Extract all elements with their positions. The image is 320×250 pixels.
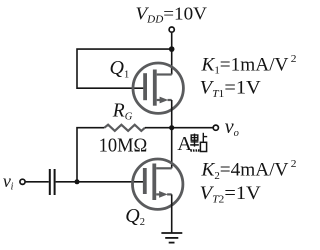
wire VDD rail down to Q1 drain — [171, 33, 173, 75]
wire Q1 gate feedback loop — [77, 49, 172, 88]
capacitor left plate — [49, 169, 51, 195]
wire vi to capacitor — [26, 181, 49, 183]
svg-text:VT1=1V: VT1=1V — [200, 79, 262, 100]
svg-text:10MΩ: 10MΩ — [99, 134, 148, 156]
svg-text:A: A — [177, 133, 192, 155]
glyph dian (Chinese "point") — [190, 133, 207, 152]
terminal vi — [20, 179, 25, 184]
terminal VDD — [169, 27, 174, 32]
svg-text:VDD=10V: VDD=10V — [136, 4, 208, 26]
ground — [161, 233, 182, 243]
capacitor right plate — [54, 169, 56, 195]
wire node A to vo terminal — [172, 127, 213, 129]
resistor RG zigzag — [104, 125, 145, 131]
mosfet Q1 — [133, 63, 183, 113]
mosfet Q2 — [133, 159, 183, 209]
wire Q2 source to ground — [171, 194, 173, 232]
junction dot vi node — [75, 179, 80, 184]
svg-text:VT2=1V: VT2=1V — [200, 184, 262, 205]
wire RG left lead — [77, 128, 104, 182]
junction dot top — [169, 46, 175, 52]
wire capacitor to Q2 gate — [56, 181, 144, 183]
wire RG right lead to node A — [145, 127, 172, 129]
wire Q1 source to Q2 drain (through node A) — [171, 100, 173, 168]
terminal vo — [213, 125, 218, 130]
node A junction dot — [169, 125, 174, 130]
